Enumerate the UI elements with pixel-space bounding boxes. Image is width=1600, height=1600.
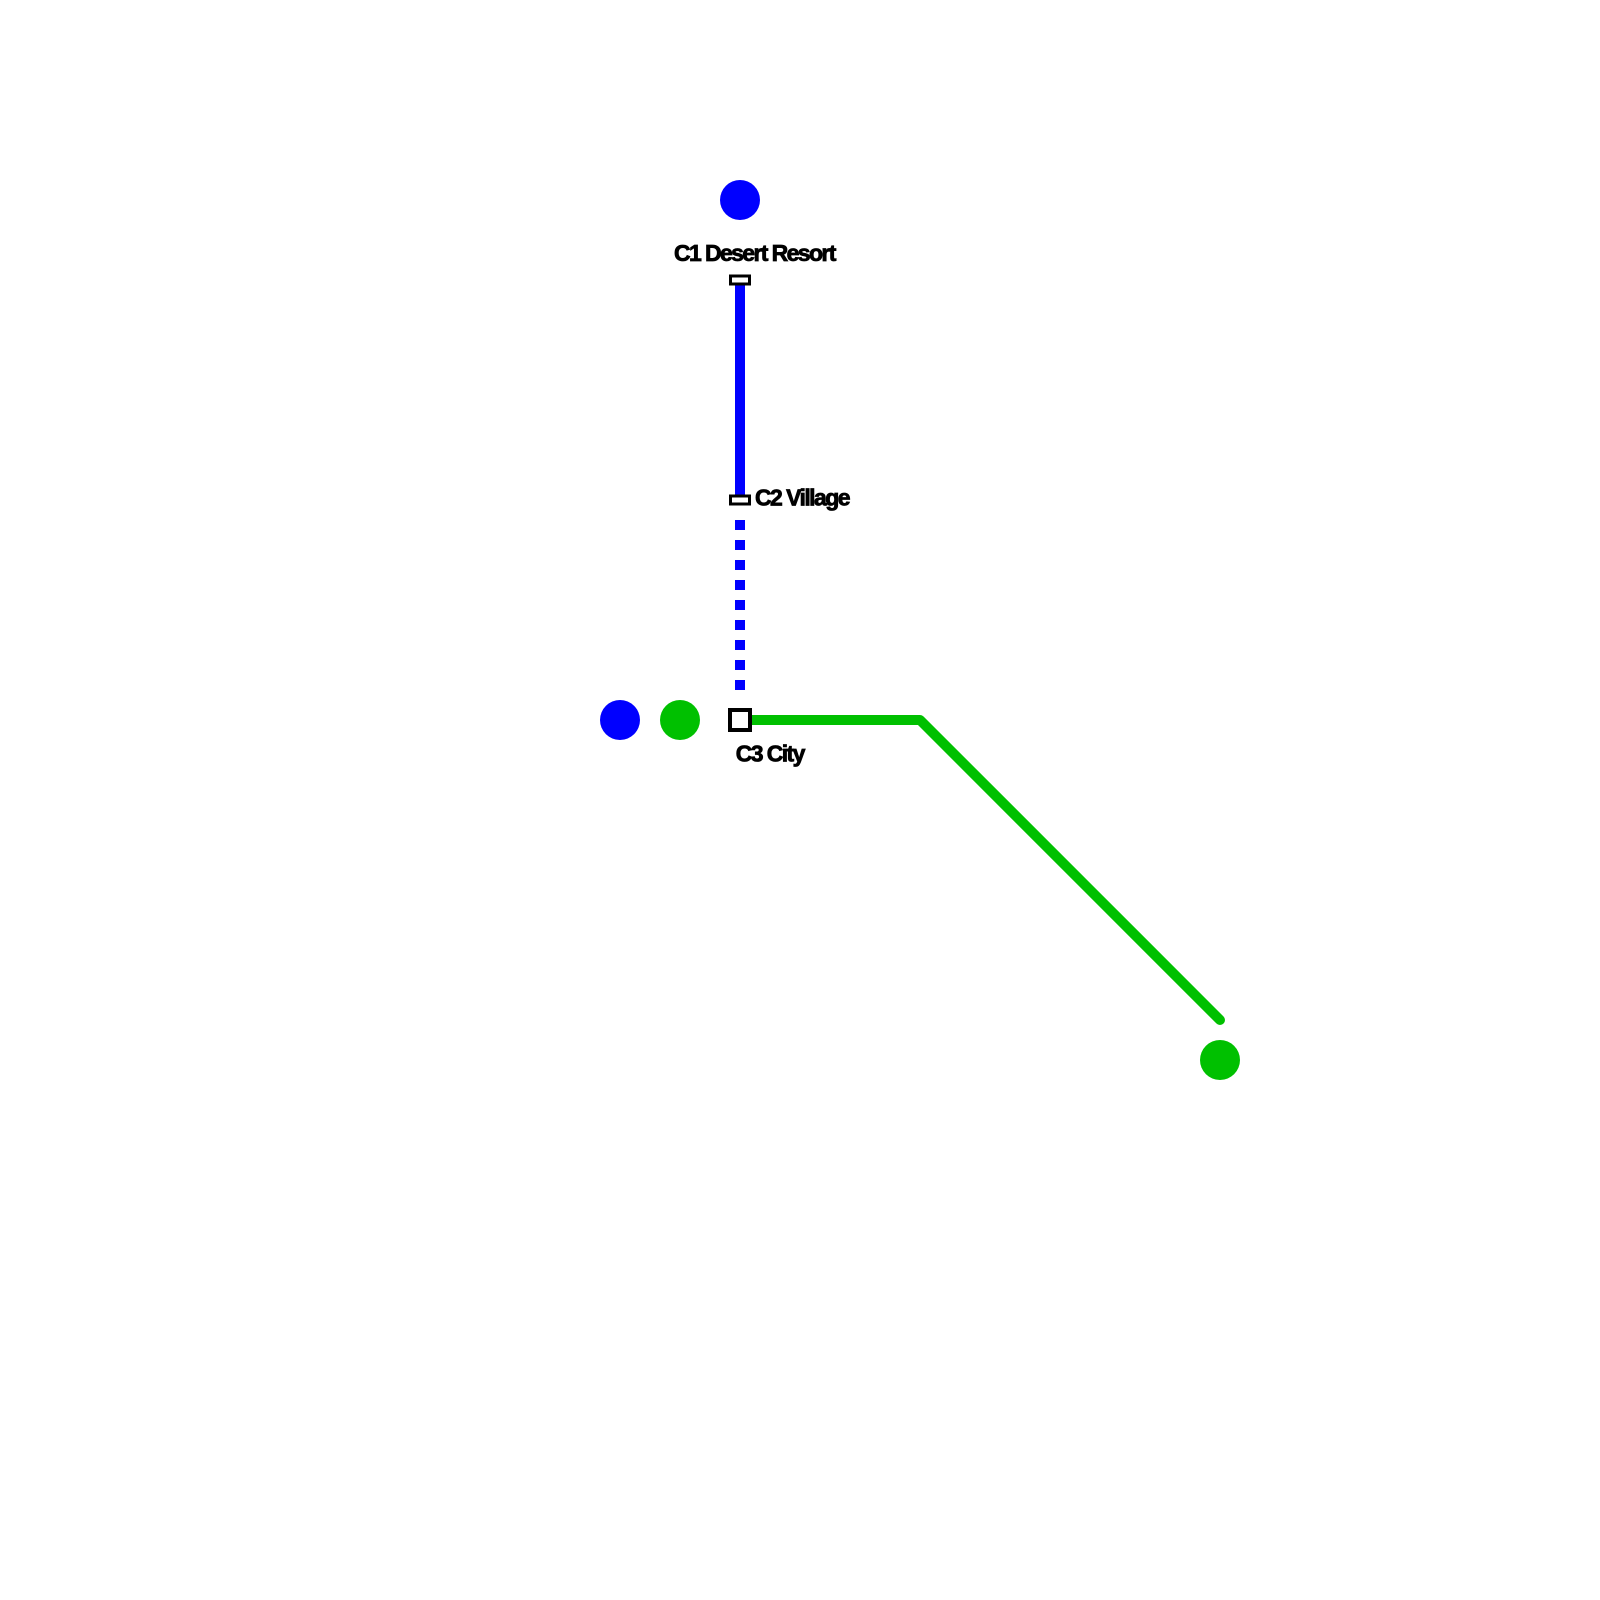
route badge circle blue at C3 <box>600 700 640 740</box>
route badge circle green at C3 <box>660 700 700 740</box>
svg-text:C2 Village: C2 Village <box>755 485 851 511</box>
svg-text:C3 City: C3 City <box>736 740 806 766</box>
terminus circle Green Line <box>1200 1040 1240 1080</box>
svg-text:C1 Desert Resort: C1 Desert Resort <box>674 240 837 266</box>
station marker C3 (interchange square) <box>730 710 750 730</box>
Blue Line segment C2-C3 (dashed wire) <box>735 520 745 690</box>
Green Line C3 to terminus (wire with bend) <box>740 720 1220 1020</box>
station marker C1 (rect) <box>731 276 750 284</box>
station marker C2 (rect) <box>731 496 750 504</box>
Blue Line segment C1-C2 (solid wire) <box>735 280 745 500</box>
terminus circle Blue Line at C1 <box>720 180 760 220</box>
